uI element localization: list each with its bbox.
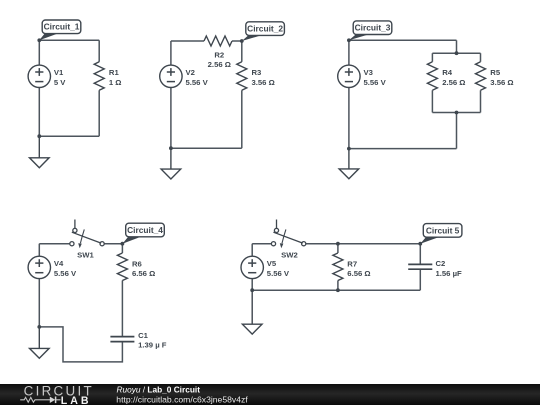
svg-text:3.56 Ω: 3.56 Ω [252, 78, 275, 87]
wire circuit1 bottom [39, 135, 99, 137]
logo diode symbol [50, 397, 55, 403]
voltage source V2 symbol [160, 65, 182, 87]
svg-text:Circuit_3: Circuit_3 [355, 23, 391, 33]
logo wire to diode [37, 399, 51, 401]
svg-text:C2: C2 [436, 259, 446, 268]
junction dot circuit5 node [418, 242, 422, 246]
svg-text:2.56 Ω: 2.56 Ω [208, 60, 231, 69]
wire circuit3 parallel bottom rail [432, 112, 480, 114]
ground circuit2 [161, 148, 181, 179]
voltage source V5 symbol [241, 256, 263, 278]
resistor R2 [204, 36, 232, 46]
svg-text:SW1: SW1 [77, 250, 94, 259]
wire circuit4 left lower [38, 278, 40, 327]
svg-text:C1: C1 [138, 331, 149, 340]
svg-text:2.56 Ω: 2.56 Ω [442, 78, 465, 87]
wire circuit5 left upper [251, 244, 253, 257]
junction dot circuit1 node [37, 38, 41, 42]
voltage source V3 symbol [338, 65, 360, 87]
resistor R5 [476, 62, 486, 91]
voltage source V4 symbol [28, 256, 50, 278]
svg-text:V4: V4 [54, 259, 64, 268]
svg-text:SW2: SW2 [281, 250, 298, 259]
svg-text:R7: R7 [347, 259, 357, 268]
wire R5 leads [480, 53, 482, 62]
wire circuit1 left upper [38, 40, 40, 65]
wire circuit5 top left [252, 243, 271, 245]
wire R7 leads [337, 244, 339, 253]
switch SW2 arrow head [280, 243, 284, 248]
svg-text:Circuit 5: Circuit 5 [426, 225, 460, 235]
junction dot circuit3 node [347, 38, 351, 42]
capacitor C2 [408, 264, 432, 269]
capacitor C1 [110, 337, 134, 342]
junction dot circuit5 bottom left [250, 288, 254, 292]
wire circuit2 left lower [170, 87, 172, 148]
svg-text:Circuit_1: Circuit_1 [44, 22, 80, 32]
svg-text:R5: R5 [490, 68, 501, 77]
node label callout Circuit_2 [242, 22, 285, 41]
svg-text:Circuit_2: Circuit_2 [247, 24, 283, 34]
wire R6 to C1 [121, 281, 123, 337]
wire R4 leads [431, 53, 433, 62]
svg-text:5.56 V: 5.56 V [54, 269, 77, 278]
svg-text:1.39 µ F: 1.39 µ F [138, 341, 167, 350]
wire R6 top lead [121, 244, 123, 253]
svg-text:1 Ω: 1 Ω [109, 78, 122, 87]
node label callout Circuit_4 [122, 223, 164, 244]
resistor R4 [427, 62, 437, 91]
junction dot circuit4 [37, 325, 41, 329]
switch SW1 [70, 220, 104, 246]
wire circuit3 drop to parallel pair [456, 40, 458, 53]
svg-text:Circuit_4: Circuit_4 [127, 225, 163, 235]
wire circuit1 right upper [98, 40, 100, 62]
svg-text:LAB: LAB [61, 395, 92, 405]
wire circuit2 right (R3 leads) [241, 41, 243, 62]
wire circuit4 top right [104, 243, 122, 245]
svg-text:R2: R2 [214, 50, 224, 59]
svg-text:5.56 V: 5.56 V [364, 78, 387, 87]
logo wire after diode [56, 399, 61, 401]
ground circuit4 [30, 327, 50, 358]
wire circuit1 right lower [98, 90, 100, 136]
junction dot R7 bottom [336, 288, 340, 292]
svg-text:R1: R1 [109, 68, 120, 77]
wire circuit3 top [349, 39, 457, 41]
resistor R3 [237, 62, 247, 91]
svg-text:6.56 Ω: 6.56 Ω [347, 269, 370, 278]
ground circuit5 [242, 290, 262, 334]
wire circuit5 top mid [306, 243, 421, 245]
junction dot circuit3 bottom [347, 147, 351, 151]
wire circuit4 left upper [38, 244, 40, 257]
svg-text:Ruoyu / Lab_0 Circuit: Ruoyu / Lab_0 Circuit [117, 384, 201, 394]
svg-text:3.56 Ω: 3.56 Ω [490, 78, 513, 87]
junction dot parallel top [455, 51, 459, 55]
svg-text:V1: V1 [54, 68, 64, 77]
svg-text:5 V: 5 V [54, 78, 66, 87]
svg-text:R3: R3 [252, 68, 262, 77]
junction dot parallel bottom [455, 111, 459, 115]
wire circuit3 parallel top rail [432, 52, 480, 54]
node label callout Circuit 5 [420, 224, 462, 244]
svg-text:R4: R4 [442, 68, 453, 77]
wire circuit3 mid drop [456, 113, 458, 149]
wire circuit1 left lower [38, 87, 40, 136]
svg-text:V5: V5 [267, 259, 277, 268]
junction dot circuit2 [169, 146, 173, 150]
svg-text:5.56 V: 5.56 V [267, 269, 290, 278]
wire circuit5 left lower [251, 278, 253, 290]
node label callout Circuit_1 [39, 20, 81, 40]
switch SW1 arrow head [78, 243, 82, 248]
wire circuit5 bottom [252, 289, 420, 291]
resistor R7 [333, 253, 343, 281]
svg-text:1.56 µF: 1.56 µF [436, 269, 463, 278]
wire C2 leads [419, 244, 421, 265]
junction dot circuit2 node [240, 39, 244, 43]
wire circuit3 left [348, 40, 350, 65]
resistor R6 [117, 253, 127, 281]
svg-text:R6: R6 [132, 259, 142, 268]
svg-text:V3: V3 [364, 68, 373, 77]
junction dot R7 top [336, 242, 340, 246]
resistor R1 [94, 62, 104, 91]
ground circuit1 [30, 136, 50, 168]
svg-text:6.56 Ω: 6.56 Ω [132, 269, 155, 278]
wire circuit2 left upper [170, 41, 172, 65]
logo resistor zigzag [20, 397, 36, 402]
junction dot circuit1 [37, 134, 41, 138]
node label callout Circuit_3 [349, 21, 392, 40]
wire circuit4 top left [39, 243, 70, 245]
wire circuit2 top left [171, 40, 204, 42]
svg-text:http://circuitlab.com/c6x3jne5: http://circuitlab.com/c6x3jne58v4zf [116, 394, 248, 404]
wire circuit2 top right [232, 40, 242, 42]
wire circuit3 bottom [349, 148, 457, 150]
wire circuit4 bottom path [39, 327, 122, 362]
svg-text:5.56 V: 5.56 V [186, 78, 209, 87]
wire circuit2 bottom [171, 147, 242, 149]
svg-text:V2: V2 [186, 68, 195, 77]
wire circuit1 top [39, 39, 99, 41]
voltage source V1 symbol [28, 65, 50, 87]
ground circuit3 [339, 149, 359, 179]
switch SW2 [271, 220, 305, 246]
junction dot circuit4 node [121, 242, 125, 246]
